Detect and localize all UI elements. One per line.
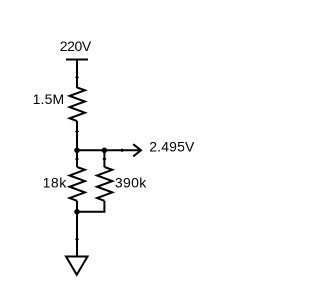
resistor R1 [70,88,85,122]
resistor R2 [70,167,85,201]
wire from bottom node to ground [76,212,78,257]
pin marker on wire [75,237,79,241]
resistor R3 [97,167,112,201]
pin marker on wire [75,130,79,134]
junction dot right [102,148,108,154]
svg-text:390k: 390k [115,174,147,190]
junction dot left [74,148,80,154]
pin marker on wire [75,157,79,161]
svg-text:18k: 18k [43,174,68,190]
wire from R3 to bottom node [77,201,104,212]
wire from node to R3 [103,150,105,167]
probe arrowhead [133,144,141,156]
junction dot bottom [74,209,80,215]
svg-text:2.495V: 2.495V [149,139,195,155]
pin marker on wire [102,157,106,161]
wire from R2 to bottom node [76,201,78,212]
power terminal bar 220V [66,59,88,61]
wire from R1 to node [76,121,78,150]
wire from node to R2 [76,150,78,167]
svg-text:220V: 220V [60,38,92,54]
wire node horizontal [77,149,104,151]
ground [66,257,88,275]
pin marker on wire [120,148,124,152]
wire to probe arrow [104,149,139,151]
wire from 220V terminal to R1 [76,60,78,89]
pin marker on wire [75,75,79,79]
svg-text:1.5M: 1.5M [33,91,65,107]
